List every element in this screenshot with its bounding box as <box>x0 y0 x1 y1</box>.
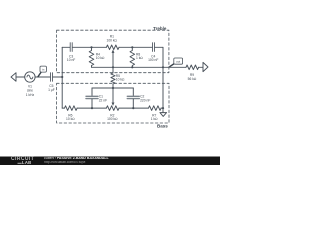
svg-text:out: out <box>176 60 180 64</box>
node R8 top junction <box>131 46 133 48</box>
svg-text:22 nF: 22 nF <box>99 98 107 102</box>
wire <box>77 107 106 109</box>
wire <box>199 66 203 68</box>
potentiometer R2 <box>106 106 119 121</box>
svg-text:1 µF: 1 µF <box>48 88 55 92</box>
svg-text:10 kΩ: 10 kΩ <box>116 78 125 82</box>
wire <box>35 76 50 78</box>
capacitor C2 <box>127 88 150 108</box>
wire <box>53 76 62 78</box>
capacitor C4 <box>148 43 158 63</box>
node R4 top junction <box>90 46 92 48</box>
node ground junction <box>162 107 164 109</box>
ground <box>160 108 167 116</box>
node out junction <box>162 66 164 68</box>
svg-text:10 kΩ: 10 kΩ <box>66 117 75 121</box>
source V1 <box>25 72 35 97</box>
capacitor C1 <box>86 88 107 108</box>
node flag out <box>170 58 183 67</box>
svg-text:1 kΩ: 1 kΩ <box>151 117 158 121</box>
svg-text:100 kΩ: 100 kΩ <box>107 117 118 121</box>
watermark logo LAB <box>18 161 40 165</box>
node C1 bottom junction <box>91 107 93 109</box>
capacitor C3 <box>67 43 75 63</box>
svg-text:56 kΩ: 56 kΩ <box>188 77 197 81</box>
wire out branch <box>163 66 186 68</box>
svg-text:10 nF: 10 nF <box>67 58 75 62</box>
wire bass wiper <box>112 88 114 103</box>
node wiper junction <box>112 66 114 68</box>
svg-text:220 nF: 220 nF <box>140 98 150 102</box>
potentiometer R1 <box>106 35 119 68</box>
resistor R9 <box>186 65 199 81</box>
input port <box>11 73 16 82</box>
resistor R7 <box>149 106 162 121</box>
svg-text:1 kΩ: 1 kΩ <box>136 56 143 60</box>
watermark url text <box>44 161 122 165</box>
wire bass row left <box>62 107 64 109</box>
node R5 bottom junction <box>112 87 114 89</box>
node flag in <box>38 66 47 77</box>
wire <box>16 76 25 78</box>
wire <box>119 46 152 48</box>
svg-text:1 kHz: 1 kHz <box>26 93 35 97</box>
watermark bar <box>0 156 220 166</box>
wire bass top rail <box>92 87 133 89</box>
svg-text:Bass: Bass <box>157 123 168 128</box>
wire treble row left <box>62 46 70 48</box>
wire <box>119 107 149 109</box>
resistor R8 <box>130 47 143 67</box>
svg-text:100 kΩ: 100 kΩ <box>106 38 117 42</box>
node C2 bottom junction <box>132 107 134 109</box>
wire <box>73 46 107 48</box>
wire <box>155 46 163 48</box>
output port <box>203 62 208 71</box>
svg-text:Treble: Treble <box>153 26 167 31</box>
resistor R4 <box>89 47 105 67</box>
resistor R5 <box>111 67 125 88</box>
svg-text:10 kΩ: 10 kΩ <box>96 56 105 60</box>
svg-text:100 nF: 100 nF <box>148 58 158 62</box>
wire right rail <box>162 47 164 108</box>
svg-text:in: in <box>42 68 45 72</box>
capacitor C5 <box>48 73 55 92</box>
annotation box Treble <box>57 30 169 72</box>
watermark title text <box>44 157 122 161</box>
watermark logo CIRCUIT <box>11 157 39 161</box>
resistor R6 <box>65 106 78 121</box>
node input junction <box>61 76 63 78</box>
wire left rail <box>61 47 63 108</box>
annotation box Bass <box>57 83 169 123</box>
wire <box>161 107 163 109</box>
wiper arrow bass <box>112 103 115 106</box>
wire treble mid connector <box>92 66 164 68</box>
node R8 bottom junction <box>131 66 133 68</box>
